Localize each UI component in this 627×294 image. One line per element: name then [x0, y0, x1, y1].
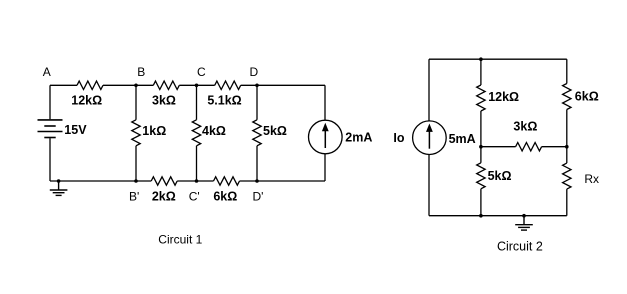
- svg-text:6kΩ: 6kΩ: [213, 189, 237, 203]
- svg-text:Rx: Rx: [584, 172, 599, 186]
- svg-text:5kΩ: 5kΩ: [263, 124, 287, 138]
- svg-text:D: D: [249, 65, 258, 79]
- svg-text:5.1kΩ: 5.1kΩ: [207, 93, 241, 107]
- svg-text:A: A: [43, 65, 51, 79]
- svg-text:1kΩ: 1kΩ: [142, 124, 166, 138]
- svg-text:5kΩ: 5kΩ: [488, 169, 512, 183]
- svg-text:2kΩ: 2kΩ: [152, 189, 176, 203]
- svg-text:6kΩ: 6kΩ: [575, 90, 599, 104]
- svg-text:Circuit 2: Circuit 2: [497, 239, 543, 253]
- svg-text:3kΩ: 3kΩ: [513, 119, 537, 133]
- svg-text:12kΩ: 12kΩ: [488, 90, 519, 104]
- svg-text:Circuit 1: Circuit 1: [158, 233, 202, 247]
- svg-text:3kΩ: 3kΩ: [152, 93, 176, 107]
- svg-text:4kΩ: 4kΩ: [202, 124, 226, 138]
- svg-text:Io: Io: [393, 131, 404, 145]
- svg-text:2mA: 2mA: [345, 131, 372, 145]
- svg-text:C': C': [189, 189, 200, 203]
- svg-text:D': D': [253, 189, 264, 203]
- svg-text:12kΩ: 12kΩ: [71, 93, 102, 107]
- svg-text:C: C: [197, 65, 206, 79]
- svg-text:B: B: [137, 65, 145, 79]
- svg-text:5mA: 5mA: [449, 132, 476, 146]
- svg-text:15V: 15V: [64, 123, 87, 137]
- svg-text:B': B': [129, 189, 139, 203]
